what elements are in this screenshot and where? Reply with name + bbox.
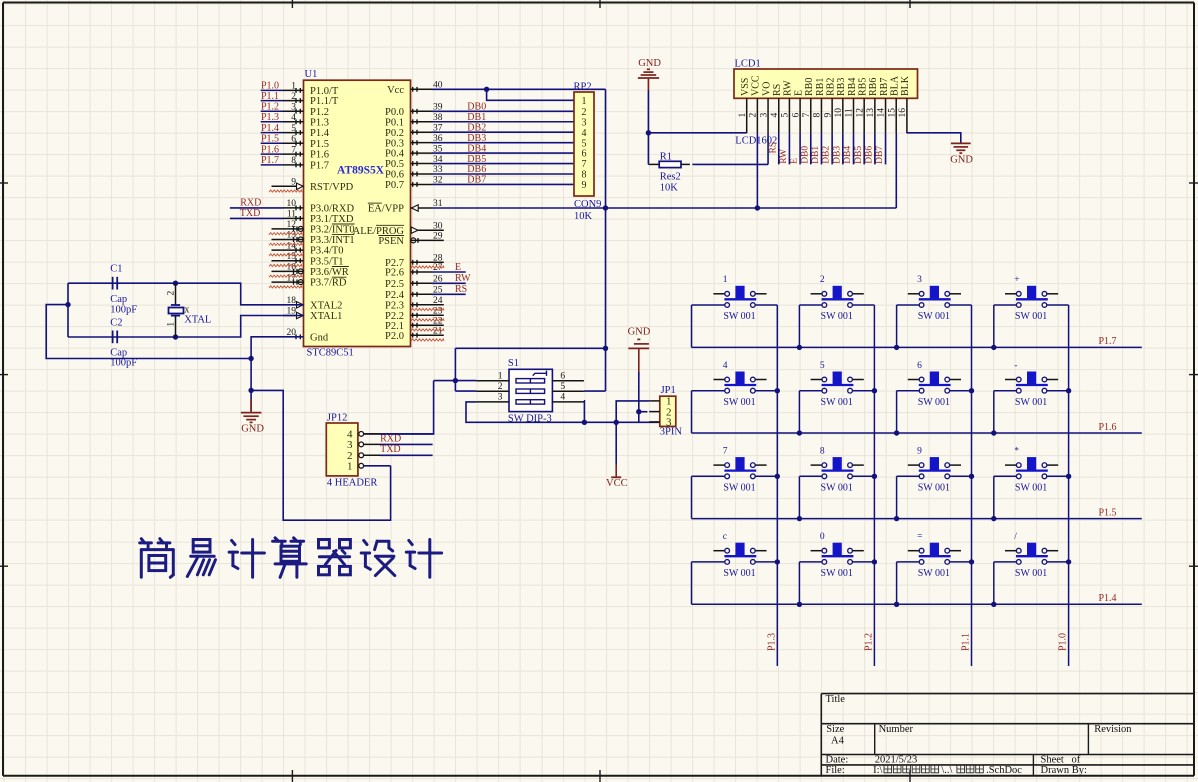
wire sw row4 col2 left bbox=[799, 561, 822, 563]
capacitor C1 bbox=[110, 264, 137, 316]
U1 pin 5 P1.4 bbox=[283, 124, 330, 139]
wire LCD VCC drop to Vcc net bbox=[756, 133, 758, 208]
svg-text:SW 001: SW 001 bbox=[821, 483, 853, 494]
svg-text:E: E bbox=[793, 90, 804, 96]
LCD1 pin 7 RB0 bbox=[802, 78, 815, 133]
svg-text:Cap: Cap bbox=[110, 294, 127, 305]
svg-text:16: 16 bbox=[898, 108, 908, 118]
svg-text:SW 001: SW 001 bbox=[821, 397, 853, 408]
svg-text:SW 001: SW 001 bbox=[1015, 311, 1047, 322]
svg-text:P2.0: P2.0 bbox=[385, 331, 404, 342]
junction bus row3 col4 bbox=[991, 516, 996, 521]
wire stub net P1.2 bbox=[261, 110, 283, 112]
wire JP1 pin1 link bbox=[616, 401, 649, 422]
wire sw row3 col3 right bbox=[950, 475, 972, 477]
U1 pin 19 XTAL1 bbox=[283, 307, 342, 322]
svg-text:P0.4: P0.4 bbox=[385, 149, 405, 160]
wire sw row3 col2 right bbox=[852, 475, 874, 477]
svg-text:30: 30 bbox=[433, 221, 443, 231]
U1 pin 23 P2.2 bbox=[385, 306, 444, 321]
svg-text:SW 001: SW 001 bbox=[918, 483, 950, 494]
svg-text:4: 4 bbox=[560, 393, 565, 403]
svg-text:RB3: RB3 bbox=[836, 78, 847, 96]
title block frame bbox=[821, 694, 1194, 776]
svg-text:DB4: DB4 bbox=[467, 143, 486, 154]
wire stub LCD pin 8 bbox=[820, 133, 822, 164]
svg-text:0: 0 bbox=[820, 532, 825, 542]
wire sw row3 col4 right bbox=[1047, 475, 1069, 477]
wire cell drop row4 col2 bbox=[798, 562, 800, 604]
wire sw row4 col2 right bbox=[852, 561, 874, 563]
junction bus row4 col3 bbox=[894, 602, 899, 607]
pushbutton switch SW 4 row2 col1 bbox=[713, 361, 766, 408]
svg-text:3: 3 bbox=[759, 113, 769, 118]
svg-text:3: 3 bbox=[666, 417, 672, 429]
wire sw row1 col1 left bbox=[692, 304, 725, 306]
svg-text:6: 6 bbox=[917, 361, 922, 371]
junction bus row4 col4 bbox=[991, 602, 996, 607]
svg-text:100pF: 100pF bbox=[110, 305, 137, 316]
svg-text:5: 5 bbox=[820, 361, 825, 371]
svg-text:4: 4 bbox=[770, 113, 780, 118]
svg-text:TXD: TXD bbox=[240, 208, 261, 219]
svg-text:XTAL1: XTAL1 bbox=[310, 311, 342, 322]
junction column P1.1 row3 bbox=[969, 474, 974, 479]
svg-text:C2: C2 bbox=[110, 317, 122, 328]
pushbutton switch SW = row4 col3 bbox=[908, 532, 961, 579]
svg-text:P1.5: P1.5 bbox=[1099, 507, 1117, 518]
ERC marker wavy under U1 pin 22 bbox=[411, 329, 444, 331]
wire ground loop to GND junction bbox=[46, 305, 251, 359]
junction gnd loop bbox=[248, 356, 253, 361]
svg-text:P3.5/T1: P3.5/T1 bbox=[310, 256, 344, 267]
svg-text:DB6: DB6 bbox=[864, 146, 874, 164]
svg-text:Drawn By:: Drawn By: bbox=[1041, 765, 1087, 776]
svg-text:14: 14 bbox=[287, 241, 297, 251]
U1 pin 37 P0.2 bbox=[385, 123, 443, 138]
svg-text:2: 2 bbox=[749, 113, 759, 118]
svg-text:*: * bbox=[1014, 447, 1019, 457]
svg-text:9: 9 bbox=[917, 447, 922, 457]
pushbutton switch SW 2 row1 col2 bbox=[811, 275, 864, 322]
svg-text:DB7: DB7 bbox=[467, 175, 486, 186]
svg-text:RB7: RB7 bbox=[879, 78, 890, 96]
svg-text:P0.0: P0.0 bbox=[385, 107, 404, 118]
wire TXD stub at U1 pin11 bbox=[230, 217, 283, 219]
wire stub LCD pin 5 bbox=[788, 133, 790, 164]
junction crystal pin1 bbox=[173, 334, 178, 339]
svg-text:DB5: DB5 bbox=[854, 146, 864, 164]
svg-text:VSS: VSS bbox=[740, 78, 751, 96]
svg-text:8: 8 bbox=[813, 113, 823, 118]
wire cell drop row1 col3 bbox=[896, 305, 898, 347]
svg-text:9: 9 bbox=[823, 113, 833, 118]
pushbutton switch SW / row4 col4 bbox=[1005, 532, 1058, 579]
connector JP1 3PIN bbox=[649, 385, 682, 437]
junction column P1.1 row2 bbox=[969, 388, 974, 393]
wire sw row1 col2 left bbox=[799, 304, 822, 306]
junction S1 pin1 bbox=[453, 378, 458, 383]
svg-text:P0.1: P0.1 bbox=[385, 117, 404, 128]
svg-text:SW 001: SW 001 bbox=[723, 397, 755, 408]
wire top S1 to Vcc vertical bbox=[455, 347, 605, 349]
wire sw row4 col1 left bbox=[692, 561, 725, 563]
junction crystal pin2 bbox=[173, 281, 178, 286]
wire cell drop row1 col4 bbox=[993, 305, 995, 347]
svg-text:100pF: 100pF bbox=[110, 358, 137, 369]
svg-text:1: 1 bbox=[498, 371, 503, 381]
svg-text:8: 8 bbox=[582, 170, 587, 181]
power port GND above JP1 bbox=[628, 326, 651, 372]
wire S1 pin4 drop bbox=[583, 401, 586, 423]
wire row bus P1.5 bbox=[691, 476, 693, 518]
svg-text:SW 001: SW 001 bbox=[1015, 568, 1047, 579]
svg-text:P3.4/T0: P3.4/T0 bbox=[310, 246, 344, 257]
junction bus row2 col2 bbox=[797, 430, 802, 435]
wire stub net P1.0 bbox=[261, 89, 283, 91]
ERC marker wavy under U1 pin 12 bbox=[269, 233, 302, 235]
junction bus row2 col4 bbox=[991, 430, 996, 435]
U1 pin 16 P3.6/WR bbox=[272, 263, 349, 278]
U1 pin 14 P3.4/T0 bbox=[272, 241, 344, 256]
U1 pin 30 ALE/PROG bbox=[353, 221, 444, 236]
wire sw row2 col1 right bbox=[755, 390, 777, 392]
U1 pin 26 P2.5 bbox=[385, 275, 443, 290]
U1 pin 1 P1.0/T bbox=[283, 82, 339, 97]
svg-text:RXD: RXD bbox=[240, 197, 261, 208]
junction column P1.3 row2 bbox=[775, 388, 780, 393]
svg-text:EA/VPP: EA/VPP bbox=[368, 204, 404, 215]
svg-text:/: / bbox=[1014, 532, 1017, 542]
LCD1 pin 3 VO bbox=[759, 82, 772, 134]
U1 pin 4 P1.3 bbox=[283, 113, 329, 128]
svg-text:RW: RW bbox=[455, 273, 471, 284]
svg-text:BLA: BLA bbox=[890, 75, 901, 96]
wire row bus P1.6 bbox=[691, 391, 693, 433]
svg-text:3: 3 bbox=[917, 275, 922, 285]
svg-text:P1.4: P1.4 bbox=[261, 123, 279, 134]
LCD1 pin 9 RB2 bbox=[823, 78, 836, 133]
svg-text:P0.3: P0.3 bbox=[385, 138, 404, 149]
wire cell drop row4 col3 bbox=[896, 562, 898, 604]
LCD1 pin 1 VSS bbox=[738, 78, 751, 133]
wire stub LCD pin 12 bbox=[863, 133, 865, 164]
wire column P1.2 bbox=[873, 305, 875, 666]
junction EA wire at LCD VCC drop bbox=[755, 205, 760, 210]
junction column P1.3 row4 bbox=[775, 559, 780, 564]
svg-text:7: 7 bbox=[582, 159, 587, 170]
connector JP12 4 HEADER bbox=[326, 412, 380, 488]
pushbutton switch SW 1 row1 col1 bbox=[713, 275, 766, 322]
svg-text:1: 1 bbox=[347, 461, 353, 473]
svg-text:11: 11 bbox=[845, 108, 855, 117]
svg-text:21: 21 bbox=[433, 326, 443, 336]
U1 pin 28 P2.7 bbox=[385, 254, 444, 269]
svg-text:RS: RS bbox=[768, 142, 778, 154]
svg-text:P0.2: P0.2 bbox=[385, 128, 404, 139]
wire sw row2 col2 left bbox=[799, 390, 822, 392]
switch S1 SW DIP-3 bbox=[476, 358, 584, 425]
junction column P1.2 row3 bbox=[872, 474, 877, 479]
wire EA/VPP Vcc net horizontal bbox=[432, 207, 896, 209]
svg-text:P1.2: P1.2 bbox=[863, 633, 874, 651]
svg-text:XTAL: XTAL bbox=[184, 314, 211, 325]
wire stub net P1.5 bbox=[261, 142, 283, 144]
capacitor C2 bbox=[110, 317, 137, 368]
wire sw row4 col3 left bbox=[897, 561, 920, 563]
svg-text:P3.7/RD: P3.7/RD bbox=[310, 278, 347, 289]
ERC marker wavy under U1 pin 28 bbox=[411, 266, 444, 268]
svg-text:8: 8 bbox=[291, 156, 296, 166]
junction GND-R1 bbox=[646, 130, 651, 135]
svg-text:DB3: DB3 bbox=[832, 146, 842, 164]
wire sw row1 col3 right bbox=[950, 304, 972, 306]
svg-text:DB4: DB4 bbox=[843, 146, 853, 164]
wire C2 bottom net XTAL1 bbox=[68, 316, 304, 338]
wire sw row3 col1 left bbox=[692, 475, 725, 477]
wire JP1 pin2 link bbox=[639, 411, 648, 413]
junction bus row3 col3 bbox=[894, 516, 899, 521]
wire JP12 pin2 TXD bbox=[380, 454, 433, 456]
svg-text:DB0: DB0 bbox=[467, 102, 486, 113]
U1 pin 25 P2.4 bbox=[385, 286, 443, 301]
wire S1 pins 1-2 vertical bbox=[454, 348, 456, 391]
wire Vcc vertical to EA and S1 bbox=[605, 89, 607, 391]
wire DB4 U1 to RP2 bbox=[432, 152, 574, 154]
svg-text:P1.6: P1.6 bbox=[261, 144, 279, 155]
wire JP12 pin4 link bbox=[380, 433, 434, 435]
junction on Vcc wire bbox=[484, 87, 489, 92]
wire S1 pin3 to JP1 bus bbox=[466, 402, 660, 422]
svg-text:3: 3 bbox=[498, 393, 503, 403]
junction column P1.2 row4 bbox=[872, 559, 877, 564]
svg-text:4 HEADER: 4 HEADER bbox=[327, 478, 377, 489]
U1 pin 21 P2.0 bbox=[385, 326, 444, 341]
svg-text:DB1: DB1 bbox=[467, 112, 486, 123]
LCD1 pin 8 RB1 bbox=[813, 78, 826, 133]
wire sw row1 col4 right bbox=[1047, 304, 1069, 306]
pushbutton switch SW + row1 col4 bbox=[1005, 275, 1058, 322]
U1 pin 29 PSEN bbox=[378, 232, 444, 247]
svg-text:RW: RW bbox=[783, 80, 794, 96]
svg-text:SW 001: SW 001 bbox=[918, 397, 950, 408]
svg-text:DB7: DB7 bbox=[875, 146, 885, 164]
wire sw row1 col3 left bbox=[897, 304, 920, 306]
wire sw row4 col3 right bbox=[950, 561, 972, 563]
wire cell drop row3 col4 bbox=[993, 476, 995, 518]
svg-text:P1.0: P1.0 bbox=[1058, 633, 1069, 651]
svg-text:P2.3: P2.3 bbox=[385, 300, 404, 311]
svg-text:P1.4: P1.4 bbox=[310, 128, 330, 139]
svg-text:RB2: RB2 bbox=[825, 78, 836, 96]
LCD1 pin 11 RB4 bbox=[845, 78, 858, 133]
LCD1 pin 15 BLA bbox=[887, 75, 900, 133]
svg-text:RS: RS bbox=[455, 284, 467, 295]
U1 pin 22 P2.1 bbox=[385, 316, 444, 331]
U1 pin 40 Vcc bbox=[387, 81, 443, 96]
svg-text:P1.5: P1.5 bbox=[261, 133, 279, 144]
svg-text:10K: 10K bbox=[660, 183, 679, 194]
LCD1 pin 13 RB6 bbox=[866, 78, 879, 133]
LCD1 pin 2 VCC bbox=[749, 75, 762, 133]
wire cell drop row3 col2 bbox=[798, 476, 800, 518]
wire JP12 pin1 link bbox=[364, 465, 391, 467]
junction bus row2 col3 bbox=[894, 430, 899, 435]
wire LCD BLA riser bbox=[895, 133, 897, 208]
svg-text:RS: RS bbox=[772, 84, 783, 96]
LCD1 pin 5 RW bbox=[781, 80, 794, 133]
title block labels bbox=[826, 694, 1133, 776]
junction bus row3 col2 bbox=[797, 516, 802, 521]
junction column P1.0 row3 bbox=[1066, 474, 1071, 479]
pushbutton switch SW c row4 col1 bbox=[713, 532, 766, 579]
svg-text:SW 001: SW 001 bbox=[1015, 483, 1047, 494]
svg-text:2: 2 bbox=[820, 275, 825, 285]
svg-text:P0.7: P0.7 bbox=[385, 180, 404, 191]
power port GND above R1 bbox=[638, 58, 661, 90]
wire stub LCD pin 11 bbox=[853, 133, 855, 164]
svg-text:GND: GND bbox=[638, 58, 661, 69]
pushbutton switch SW * row3 col4 bbox=[1005, 447, 1058, 494]
wire LCD BLK to GND bbox=[907, 133, 961, 143]
svg-text:SW 001: SW 001 bbox=[821, 568, 853, 579]
svg-text:1: 1 bbox=[582, 96, 587, 107]
crystal X XTAL bbox=[166, 283, 211, 337]
svg-text:RW: RW bbox=[779, 149, 789, 164]
U1 pin 31 EA/VPP bbox=[368, 199, 443, 214]
U1 pin 12 P3.2/INT0 bbox=[272, 220, 355, 235]
wire S1 pin2 link bbox=[455, 390, 476, 392]
wire gnd branch to JP12 pin1 bbox=[251, 390, 391, 520]
U1 pin 13 P3.3/INT1 bbox=[272, 231, 355, 246]
power port GND right of LCD bbox=[950, 143, 973, 165]
svg-text:P1.5: P1.5 bbox=[310, 139, 329, 150]
U1 pin 9 RST/VPD bbox=[272, 178, 354, 193]
svg-text:15: 15 bbox=[287, 252, 297, 262]
svg-text:SW 001: SW 001 bbox=[821, 311, 853, 322]
junction bus row1 col2 bbox=[797, 345, 802, 350]
svg-text:15: 15 bbox=[887, 108, 897, 118]
svg-text:GND: GND bbox=[628, 326, 651, 337]
svg-text:C1: C1 bbox=[110, 264, 122, 275]
U1 pin 3 P1.2 bbox=[283, 102, 329, 117]
wire column P1.0 bbox=[1068, 305, 1070, 666]
svg-text:7: 7 bbox=[723, 447, 728, 457]
U1 pin 27 P2.6 bbox=[385, 263, 443, 278]
power port VCC bbox=[606, 422, 628, 489]
ERC marker wavy under U1 pin 15 bbox=[269, 264, 302, 266]
svg-text:I:\: I:\ bbox=[873, 765, 882, 776]
U1 pin 6 P1.5 bbox=[283, 134, 329, 149]
U1 pin 10 P3.0/RXD bbox=[283, 199, 354, 214]
U1 pin 17 P3.7/RD bbox=[272, 273, 347, 288]
junction left vertical bbox=[65, 302, 70, 307]
wire column P1.3 bbox=[776, 305, 778, 666]
svg-text:E: E bbox=[790, 158, 800, 164]
resistor R1 Res2 10K bbox=[648, 151, 694, 193]
svg-text:BLK: BLK bbox=[900, 75, 911, 96]
wire stub LCD pin 13 bbox=[874, 133, 876, 164]
svg-text:14: 14 bbox=[877, 108, 887, 118]
wire sw row4 col4 right bbox=[1047, 561, 1069, 563]
svg-text:8: 8 bbox=[820, 447, 825, 457]
wire sw row3 col1 right bbox=[755, 475, 777, 477]
svg-text:1: 1 bbox=[738, 113, 748, 118]
U1 pin 32 P0.7 bbox=[385, 176, 443, 191]
U1 pin 11 P3.1/TXD bbox=[283, 210, 354, 225]
svg-text:P3.1/TXD: P3.1/TXD bbox=[310, 214, 354, 225]
wire sw row3 col4 left bbox=[994, 475, 1017, 477]
svg-text:12: 12 bbox=[855, 108, 865, 118]
svg-text:6: 6 bbox=[560, 371, 565, 381]
U1 pin 34 P0.5 bbox=[385, 155, 443, 170]
svg-text:P1.1/T: P1.1/T bbox=[310, 96, 339, 107]
svg-text:+: + bbox=[1014, 275, 1019, 285]
svg-text:P1.1: P1.1 bbox=[961, 633, 972, 651]
svg-text:P1.7: P1.7 bbox=[310, 161, 329, 172]
svg-text:2: 2 bbox=[582, 107, 587, 118]
svg-text:SW 001: SW 001 bbox=[723, 568, 755, 579]
svg-text:Title: Title bbox=[826, 694, 846, 705]
svg-text:c: c bbox=[723, 532, 727, 542]
svg-text:9: 9 bbox=[291, 178, 296, 188]
svg-text:P1.7: P1.7 bbox=[261, 155, 279, 166]
wire RXD stub at U1 pin10 bbox=[230, 207, 283, 209]
LCD1 LCD1602 body bbox=[734, 58, 918, 146]
wire sw row2 col2 right bbox=[852, 390, 874, 392]
wire stub LCD pin 14 bbox=[885, 133, 887, 164]
svg-text:P2.5: P2.5 bbox=[385, 279, 404, 290]
U1 pin 20 Gnd bbox=[283, 328, 329, 343]
svg-text:P0.6: P0.6 bbox=[385, 170, 404, 181]
svg-text:6: 6 bbox=[291, 134, 296, 144]
wire GND down to R1 bbox=[647, 133, 649, 165]
svg-text:9: 9 bbox=[582, 180, 587, 191]
wire sw row1 col1 right bbox=[755, 304, 777, 306]
svg-text:5: 5 bbox=[781, 113, 791, 118]
wire net RW at U1 bbox=[432, 282, 466, 284]
junction gnd branch bbox=[248, 388, 253, 393]
svg-text:4: 4 bbox=[582, 128, 587, 139]
junction EA wire at Vcc vertical bbox=[603, 205, 608, 210]
ERC marker wavy under U1 pin 14 bbox=[269, 254, 302, 256]
wire row bus P1.4 bbox=[691, 562, 693, 604]
U1 pin 15 P3.5/T1 bbox=[272, 252, 344, 267]
wire stub net P1.6 bbox=[261, 153, 283, 155]
ERC marker wavy under U1 pin 13 bbox=[269, 243, 302, 245]
wire DB2 U1 to RP2 bbox=[432, 131, 574, 133]
mcu U1 AT89S5X body bbox=[304, 69, 411, 359]
junction bus at S1 pin4 drop bbox=[582, 420, 587, 425]
svg-text:SW 001: SW 001 bbox=[723, 311, 755, 322]
svg-text:DB0: DB0 bbox=[800, 146, 810, 164]
svg-text:P1.7: P1.7 bbox=[1099, 336, 1117, 347]
junction bus row1 col4 bbox=[991, 345, 996, 350]
svg-text:Vcc: Vcc bbox=[387, 85, 404, 96]
junction S1 top wire at Vcc vertical bbox=[603, 346, 608, 351]
svg-text:P2.4: P2.4 bbox=[385, 290, 405, 301]
svg-text:1: 1 bbox=[166, 322, 176, 327]
pushbutton switch SW 5 row2 col2 bbox=[811, 361, 864, 408]
svg-text:P1.1: P1.1 bbox=[261, 91, 279, 102]
svg-text:A4: A4 bbox=[831, 735, 845, 746]
wire cell drop row4 col4 bbox=[993, 562, 995, 604]
svg-text:DB2: DB2 bbox=[822, 146, 832, 164]
pushbutton switch SW 0 row4 col2 bbox=[811, 532, 864, 579]
wire stub net P1.3 bbox=[261, 121, 283, 123]
title text jian-yi-ji-suan-qi-she-ji (CJK drawn strokes) bbox=[140, 538, 442, 578]
svg-text:RB0: RB0 bbox=[804, 78, 815, 96]
